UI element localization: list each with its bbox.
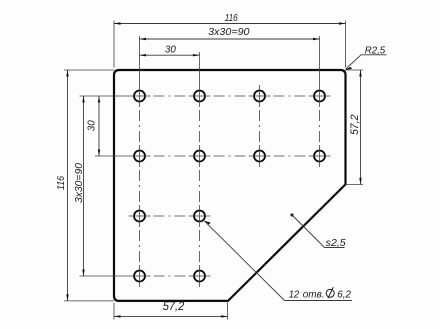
hole H12 r4c2 bbox=[189, 265, 211, 287]
centerline row4 c1-c2 bbox=[154, 275, 186, 277]
extension line row2 left bbox=[95, 155, 129, 157]
extension line col1 top bbox=[139, 36, 141, 85]
svg-text:3x30=90: 3x30=90 bbox=[73, 163, 85, 203]
centerline col2 r2-r3 bbox=[199, 170, 201, 202]
hole H6 r2c2 bbox=[189, 145, 211, 167]
centerline col1 r2-r3 bbox=[139, 170, 141, 202]
dimension 57,2 right line bbox=[359, 70, 361, 184]
extension line right top bbox=[346, 69, 364, 71]
extension line row4 left bbox=[80, 275, 129, 277]
centerline row1 c3-c4 bbox=[274, 95, 306, 97]
centerline col2 r3-r4 bbox=[199, 230, 201, 262]
centerline row2 c3-c4 bbox=[274, 155, 306, 157]
svg-text:s2,5: s2,5 bbox=[326, 237, 346, 249]
extension line bottom-left corner bbox=[113, 303, 115, 320]
svg-text:R2,5: R2,5 bbox=[365, 44, 386, 56]
dimension 57,2 bottom line bbox=[114, 315, 228, 317]
svg-text:30: 30 bbox=[86, 120, 98, 131]
dimension 3x30=90 left line bbox=[82, 96, 84, 276]
extension line right chamfer corner bbox=[346, 183, 364, 185]
hole H2 r1c2 bbox=[189, 85, 211, 107]
centerline row1 c1-c2 bbox=[154, 95, 186, 97]
extension line left top edge bbox=[64, 69, 114, 71]
dimension 116 left line bbox=[66, 70, 68, 301]
leader 12 holes bbox=[204, 221, 352, 301]
centerline col3 r1-r2 bbox=[259, 110, 261, 142]
svg-text:6,2: 6,2 bbox=[337, 289, 351, 301]
extension line row1 left bbox=[80, 95, 129, 97]
leader R2,5 bbox=[344, 55, 386, 71]
hole H1 r1c1 bbox=[129, 85, 151, 107]
centerline col1 r1-r2 bbox=[139, 110, 141, 142]
dimension 30 top line bbox=[140, 54, 200, 56]
dimension 30 left line bbox=[98, 96, 100, 156]
hole H3 r1c3 bbox=[249, 85, 271, 107]
extension line top-right corner bbox=[345, 21, 347, 68]
plate outline bbox=[114, 70, 346, 301]
extension line bottom chamfer corner bbox=[227, 301, 229, 320]
hole H10 r3c2 bbox=[189, 205, 211, 227]
centerline row3 c1-c2 bbox=[154, 215, 186, 217]
centerline col1 r3-r4 bbox=[139, 230, 141, 262]
dimension 3x30=90 top line bbox=[140, 38, 320, 40]
centerline col2 r1-r2 bbox=[199, 110, 201, 142]
centerline col4 r1-r2 bbox=[319, 110, 321, 142]
leader s2,5 bbox=[290, 213, 344, 247]
svg-text:30: 30 bbox=[165, 44, 176, 56]
extension line col2 top bbox=[199, 52, 201, 85]
svg-text:3x30=90: 3x30=90 bbox=[208, 26, 250, 38]
dimension 116 top line bbox=[114, 22, 346, 24]
centerline row1 c2-c3 bbox=[214, 95, 246, 97]
hole H4 r1c4 bbox=[309, 85, 331, 107]
extension line col4 top bbox=[319, 36, 321, 85]
extension line left bottom edge bbox=[64, 300, 114, 302]
extension line top-left corner bbox=[113, 21, 115, 68]
hole H9 r3c1 bbox=[129, 205, 151, 227]
centerline row2 c1-c2 bbox=[154, 155, 186, 157]
svg-text:отв.: отв. bbox=[303, 289, 325, 301]
svg-text:57,2: 57,2 bbox=[349, 115, 361, 136]
svg-text:12: 12 bbox=[289, 289, 300, 301]
svg-text:57,2: 57,2 bbox=[163, 299, 185, 313]
hole H7 r2c3 bbox=[249, 145, 271, 167]
svg-text:116: 116 bbox=[55, 176, 67, 190]
hole H11 r4c1 bbox=[129, 265, 151, 287]
hole H5 r2c1 bbox=[129, 145, 151, 167]
centerline row2 c2-c3 bbox=[214, 155, 246, 157]
svg-text:116: 116 bbox=[225, 12, 238, 24]
diameter symbol bbox=[326, 287, 334, 298]
hole H8 r2c4 bbox=[309, 145, 331, 167]
